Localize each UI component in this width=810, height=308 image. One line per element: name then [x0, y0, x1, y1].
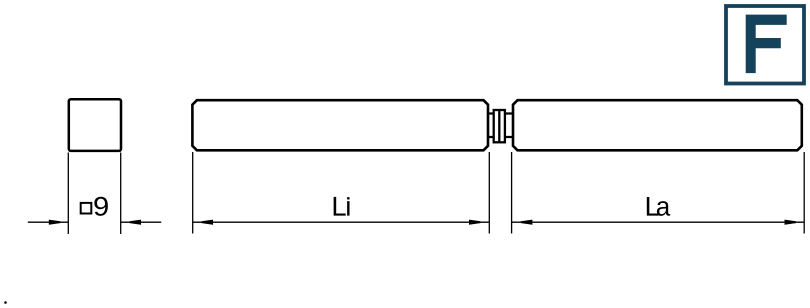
extension line square left: [67, 153, 69, 235]
arrow square right (points left): [130, 220, 142, 225]
arrow Li right (points right): [469, 220, 480, 225]
dimension line Li: [193, 221, 490, 223]
label square symbol of dimension 9: [81, 203, 92, 214]
dimension line square right segment: [121, 221, 162, 223]
arrow Li left (points left): [202, 220, 214, 225]
label La letter L: [647, 197, 659, 216]
logo letter F: [746, 15, 787, 74]
extension line Li left: [192, 152, 194, 234]
right bar La: [513, 100, 802, 150]
dimension line square left segment: [28, 221, 69, 223]
left bar Li: [192, 100, 488, 150]
coupling right stub: [505, 114, 513, 138]
logo F icon frame: [726, 6, 804, 84]
stray dot bottom left: [4, 301, 7, 304]
coupling left stub: [488, 114, 494, 138]
arrow square left (points right): [49, 220, 61, 225]
label La letter a: [657, 201, 670, 216]
extension line La left: [511, 152, 513, 234]
extension line La right: [803, 152, 805, 234]
square end view 9x9: [69, 99, 121, 151]
arrow La right (points right): [785, 220, 797, 225]
label Li letter i: [347, 197, 349, 215]
arrow La left (points left): [521, 220, 533, 225]
extension line Li right: [488, 152, 490, 234]
dimension line La: [512, 221, 805, 223]
coupling washer center line: [498, 110, 500, 142]
extension line square right: [120, 153, 122, 235]
label 9 digit: [94, 197, 107, 216]
label Li letter L: [334, 197, 346, 216]
coupling washer: [494, 110, 505, 142]
